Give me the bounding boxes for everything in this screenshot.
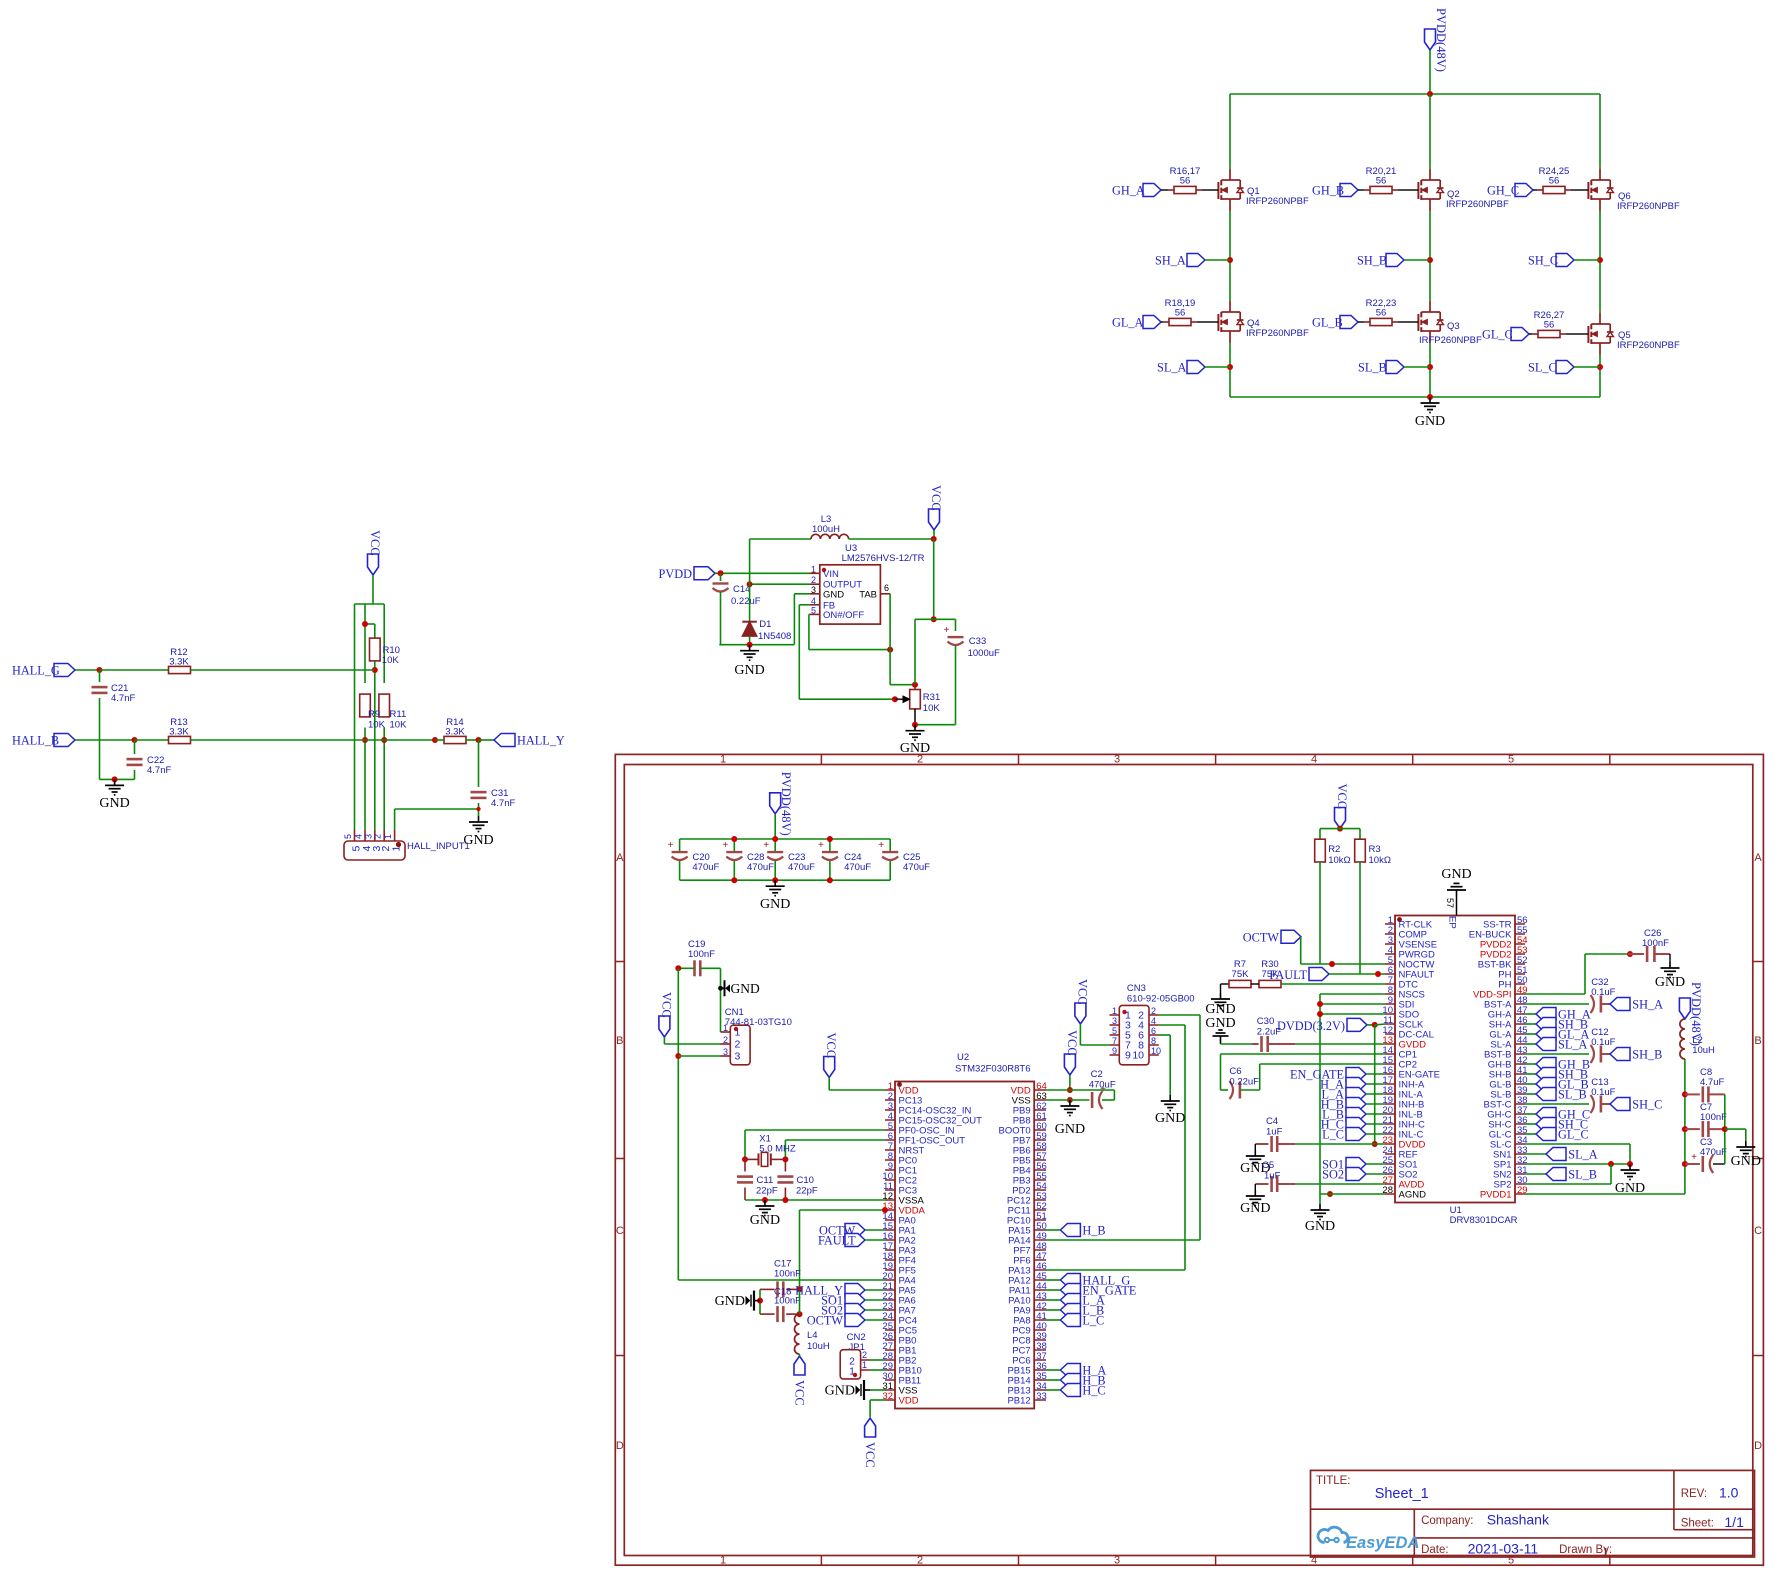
svg-text:STM32F030R8T6: STM32F030R8T6 (955, 1064, 1031, 1075)
svg-text:Date:: Date: (1421, 1544, 1449, 1556)
svg-text:0.1uF: 0.1uF (1591, 1087, 1615, 1098)
svg-text:10: 10 (1151, 1046, 1161, 1056)
svg-text:PVDD(48V): PVDD(48V) (779, 772, 793, 836)
svg-text:1/1: 1/1 (1724, 1514, 1744, 1530)
svg-text:GND: GND (1655, 975, 1685, 990)
svg-text:SH_A: SH_A (1632, 998, 1663, 1012)
svg-text:0.1uF: 0.1uF (1591, 1037, 1615, 1048)
svg-text:470uF: 470uF (1700, 1147, 1727, 1158)
svg-text:SH_C: SH_C (1632, 1098, 1662, 1112)
svg-text:33: 33 (1036, 1391, 1047, 1402)
svg-text:+: + (944, 625, 950, 636)
svg-text:4: 4 (354, 834, 364, 839)
svg-text:A: A (616, 852, 624, 864)
svg-text:+: + (763, 840, 769, 851)
svg-text:OCTW: OCTW (807, 1314, 844, 1328)
svg-text:1: 1 (720, 1554, 726, 1566)
svg-text:3: 3 (1114, 1554, 1120, 1566)
svg-text:+: + (722, 840, 728, 851)
svg-text:A: A (1754, 852, 1762, 864)
svg-text:56: 56 (1175, 308, 1186, 319)
svg-text:VCC: VCC (863, 1442, 877, 1468)
svg-text:GND: GND (99, 796, 129, 811)
svg-text:SH_C: SH_C (1528, 254, 1558, 268)
svg-text:VCC: VCC (824, 1033, 838, 1059)
svg-text:3: 3 (735, 1051, 741, 1063)
svg-text:4.7nF: 4.7nF (111, 693, 135, 704)
svg-text:22pF: 22pF (796, 1186, 818, 1197)
svg-text:470uF: 470uF (844, 862, 871, 873)
svg-text:D1: D1 (759, 619, 771, 630)
svg-text:3: 3 (1114, 754, 1120, 766)
svg-text:GND: GND (731, 981, 760, 996)
svg-text:C30: C30 (1257, 1016, 1274, 1027)
svg-text:SL_B: SL_B (1558, 1088, 1587, 1102)
svg-text:PVDD: PVDD (659, 567, 693, 581)
svg-text:IRFP260NPBF: IRFP260NPBF (1246, 196, 1309, 207)
svg-text:10K: 10K (368, 720, 386, 731)
svg-text:2: 2 (917, 1554, 923, 1566)
svg-text:DRV8301DCAR: DRV8301DCAR (1450, 1215, 1518, 1226)
svg-text:+: + (1691, 1152, 1697, 1163)
svg-text:+: + (878, 840, 884, 851)
svg-text:75K: 75K (1262, 969, 1280, 980)
svg-text:4: 4 (1151, 1016, 1156, 1026)
svg-text:H_B: H_B (1082, 1224, 1105, 1238)
svg-text:5.0 MHZ: 5.0 MHZ (759, 1144, 796, 1155)
svg-text:7: 7 (1112, 1036, 1117, 1046)
svg-text:VCC: VCC (929, 485, 943, 511)
svg-text:SL_B: SL_B (1568, 1168, 1597, 1182)
svg-text:56: 56 (1376, 308, 1387, 319)
svg-text:PVDD1: PVDD1 (1480, 1190, 1512, 1201)
svg-text:Sheet:: Sheet: (1681, 1518, 1714, 1530)
svg-text:Drawn By:: Drawn By: (1559, 1544, 1612, 1556)
svg-text:GL_A: GL_A (1112, 316, 1144, 330)
svg-text:56: 56 (1180, 176, 1191, 187)
svg-text:GH_A: GH_A (1112, 184, 1145, 198)
svg-text:D: D (1754, 1440, 1762, 1452)
svg-text:HALL_B: HALL_B (12, 734, 59, 748)
svg-text:6: 6 (1151, 1026, 1156, 1036)
svg-text:L_C: L_C (1322, 1128, 1344, 1142)
svg-text:1: 1 (811, 564, 816, 574)
svg-text:TITLE:: TITLE: (1316, 1475, 1351, 1487)
svg-text:GND: GND (1731, 1154, 1761, 1169)
svg-text:1N5408: 1N5408 (758, 631, 791, 642)
svg-text:SL_A: SL_A (1558, 1038, 1587, 1052)
svg-text:100nF: 100nF (1642, 938, 1669, 949)
svg-text:22pF: 22pF (756, 1186, 778, 1197)
svg-text:57: 57 (1445, 898, 1455, 908)
svg-text:H_C: H_C (1082, 1384, 1105, 1398)
svg-text:U2: U2 (957, 1052, 969, 1063)
svg-text:9: 9 (1125, 1050, 1131, 1062)
svg-text:GND: GND (825, 1384, 855, 1399)
svg-text:GND: GND (1205, 1002, 1235, 1017)
svg-text:4.7uF: 4.7uF (1700, 1077, 1724, 1088)
svg-text:5: 5 (1112, 1026, 1117, 1036)
svg-text:IRFP260NPBF: IRFP260NPBF (1446, 199, 1509, 210)
svg-text:470uF: 470uF (1089, 1080, 1116, 1091)
svg-text:3.3K: 3.3K (445, 727, 465, 738)
svg-text:VCC: VCC (368, 530, 382, 556)
svg-text:GND: GND (823, 589, 844, 600)
svg-text:GL_B: GL_B (1312, 316, 1343, 330)
svg-text:2: 2 (862, 1350, 867, 1360)
svg-text:IRFP260NPBF: IRFP260NPBF (1617, 201, 1680, 212)
svg-text:1: 1 (723, 1023, 728, 1033)
svg-text:5: 5 (343, 834, 353, 839)
svg-text:10uH: 10uH (1692, 1045, 1715, 1056)
svg-text:3.3K: 3.3K (169, 727, 189, 738)
svg-text:DVDD(3.2V): DVDD(3.2V) (1277, 1019, 1345, 1033)
svg-text:Shashank: Shashank (1487, 1512, 1550, 1528)
svg-text:GND: GND (1415, 414, 1445, 429)
svg-text:R31: R31 (923, 692, 940, 703)
svg-text:PVDD(48V): PVDD(48V) (1434, 8, 1448, 72)
svg-text:EP: EP (1447, 916, 1458, 929)
svg-text:AGND: AGND (1399, 1190, 1427, 1201)
svg-text:10K: 10K (390, 720, 408, 731)
svg-text:SH_B: SH_B (1357, 254, 1387, 268)
svg-text:IRFP260NPBF: IRFP260NPBF (1617, 340, 1680, 351)
svg-text:2: 2 (917, 754, 923, 766)
svg-text:C: C (1754, 1225, 1762, 1237)
svg-text:C6: C6 (1229, 1066, 1241, 1077)
svg-text:470uF: 470uF (692, 862, 719, 873)
svg-text:10kΩ: 10kΩ (1369, 855, 1391, 866)
svg-text:SL_B: SL_B (1358, 361, 1387, 375)
svg-text:56: 56 (1544, 320, 1555, 331)
svg-text:VCC: VCC (793, 1380, 807, 1406)
svg-text:TAB: TAB (859, 589, 877, 600)
svg-text:GND: GND (1205, 1016, 1235, 1031)
svg-text:GH_B: GH_B (1312, 184, 1344, 198)
svg-text:VDD: VDD (899, 1396, 919, 1407)
svg-text:0.22uF: 0.22uF (731, 596, 761, 607)
svg-text:610-92-05GB00: 610-92-05GB00 (1127, 994, 1195, 1005)
svg-text:470uF: 470uF (788, 862, 815, 873)
svg-text:2: 2 (811, 575, 816, 585)
svg-text:VCC: VCC (659, 992, 673, 1018)
svg-text:GND: GND (760, 897, 790, 912)
svg-text:2: 2 (735, 1039, 741, 1051)
svg-text:L4: L4 (807, 1330, 818, 1341)
svg-text:C5: C5 (1262, 1160, 1274, 1171)
svg-text:VCC: VCC (1065, 1030, 1079, 1056)
svg-text:6: 6 (884, 583, 889, 593)
svg-text:IRFP260NPBF: IRFP260NPBF (1419, 335, 1482, 346)
svg-text:SH_B: SH_B (1632, 1048, 1662, 1062)
svg-text:D: D (616, 1440, 624, 1452)
svg-text:0.1uF: 0.1uF (1591, 987, 1615, 998)
svg-text:L_C: L_C (1082, 1314, 1104, 1328)
svg-text:C10: C10 (797, 1175, 814, 1186)
svg-text:GND: GND (1155, 1111, 1185, 1126)
svg-text:2021-03-11: 2021-03-11 (1468, 1541, 1539, 1557)
svg-text:SO2: SO2 (1322, 1168, 1344, 1182)
svg-text:3.3K: 3.3K (169, 657, 189, 668)
svg-text:HALL_G: HALL_G (12, 664, 60, 678)
svg-text:+: + (668, 840, 674, 851)
svg-text:Sheet_1: Sheet_1 (1375, 1486, 1429, 1502)
svg-text:SH_A: SH_A (1155, 254, 1186, 268)
svg-text:0.22uF: 0.22uF (1229, 1077, 1259, 1088)
svg-text:GND: GND (1305, 1219, 1335, 1234)
svg-text:Company:: Company: (1421, 1515, 1473, 1527)
svg-text:GH_C: GH_C (1487, 184, 1519, 198)
svg-text:+: + (818, 840, 824, 851)
svg-text:GND: GND (715, 1294, 745, 1309)
svg-text:R9: R9 (368, 709, 380, 720)
svg-text:1uF: 1uF (1264, 1171, 1281, 1182)
svg-text:IRFP260NPBF: IRFP260NPBF (1246, 328, 1309, 339)
svg-text:GL_C: GL_C (1558, 1128, 1589, 1142)
svg-text:100nF: 100nF (688, 949, 715, 960)
svg-text:10K: 10K (382, 655, 400, 666)
svg-text:HALL_INPUT1: HALL_INPUT1 (407, 841, 470, 852)
svg-text:GND: GND (1441, 867, 1471, 882)
svg-text:C4: C4 (1266, 1116, 1278, 1127)
svg-text:3: 3 (1112, 1016, 1117, 1026)
svg-text:REV:: REV: (1681, 1488, 1707, 1500)
svg-text:2.2uF: 2.2uF (1257, 1027, 1281, 1038)
svg-text:C33: C33 (969, 636, 986, 647)
svg-text:100uH: 100uH (812, 524, 840, 535)
svg-text:56: 56 (1549, 176, 1560, 187)
svg-text:1: 1 (383, 834, 393, 839)
svg-text:4: 4 (811, 596, 816, 606)
svg-text:PB12: PB12 (1007, 1396, 1030, 1407)
svg-text:9: 9 (1112, 1046, 1117, 1056)
svg-text:1: 1 (720, 754, 726, 766)
svg-text:HALL_Y: HALL_Y (517, 734, 565, 748)
svg-text:OCTW: OCTW (1243, 931, 1280, 945)
svg-text:1.0: 1.0 (1719, 1485, 1739, 1501)
svg-text:100nF: 100nF (774, 1269, 801, 1280)
svg-text:4.7nF: 4.7nF (491, 798, 515, 809)
svg-text:4.7nF: 4.7nF (147, 765, 171, 776)
svg-text:SL_C: SL_C (1528, 361, 1557, 375)
svg-text:VIN: VIN (823, 569, 839, 580)
svg-text:4: 4 (1311, 754, 1317, 766)
svg-text:1: 1 (862, 1360, 867, 1370)
svg-text:Q3: Q3 (1447, 321, 1460, 332)
svg-text:GND: GND (1240, 1201, 1270, 1216)
svg-text:75K: 75K (1232, 969, 1250, 980)
svg-text:R2: R2 (1328, 844, 1340, 855)
svg-text:1000uF: 1000uF (968, 648, 1000, 659)
svg-text:GND: GND (750, 1213, 780, 1228)
svg-text:VCC: VCC (1075, 979, 1089, 1005)
svg-text:3: 3 (723, 1047, 728, 1057)
svg-text:CN3: CN3 (1127, 983, 1146, 994)
svg-text:SL_A: SL_A (1157, 361, 1186, 375)
svg-text:1: 1 (391, 846, 403, 852)
svg-text:1: 1 (1112, 1006, 1117, 1016)
svg-text:5: 5 (1508, 754, 1514, 766)
svg-text:56: 56 (1376, 176, 1387, 187)
svg-text:1uF: 1uF (1266, 1127, 1283, 1138)
svg-text:R3: R3 (1369, 844, 1381, 855)
svg-text:SL_A: SL_A (1568, 1148, 1597, 1162)
svg-text:LM2576HVS-12/TR: LM2576HVS-12/TR (842, 553, 925, 564)
svg-text:470uF: 470uF (747, 862, 774, 873)
svg-text:3: 3 (811, 585, 816, 595)
svg-text:2: 2 (1151, 1006, 1156, 1016)
svg-text:C11: C11 (757, 1175, 774, 1186)
svg-text:10K: 10K (923, 703, 941, 714)
svg-text:B: B (1754, 1035, 1761, 1047)
svg-text:10: 10 (1132, 1050, 1144, 1062)
svg-text:GND: GND (1055, 1122, 1085, 1137)
svg-text:EasyEDA: EasyEDA (1346, 1534, 1419, 1552)
svg-text:C: C (616, 1225, 624, 1237)
svg-text:C2: C2 (1091, 1069, 1103, 1080)
svg-text:5: 5 (811, 605, 816, 615)
svg-text:2: 2 (723, 1035, 728, 1045)
svg-text:GL_C: GL_C (1482, 328, 1513, 342)
svg-text:100nF: 100nF (1700, 1112, 1727, 1123)
svg-text:VCC: VCC (1335, 784, 1349, 810)
svg-text:GND: GND (734, 663, 764, 678)
svg-text:2: 2 (373, 834, 383, 839)
svg-text:470uF: 470uF (903, 862, 930, 873)
svg-text:FAULT: FAULT (818, 1234, 856, 1248)
svg-text:8: 8 (1151, 1036, 1156, 1046)
svg-text:ON#/OFF: ON#/OFF (823, 610, 864, 621)
svg-text:B: B (616, 1035, 623, 1047)
svg-text:R11: R11 (390, 709, 407, 720)
svg-text:10kΩ: 10kΩ (1328, 855, 1350, 866)
svg-text:10uH: 10uH (807, 1341, 830, 1352)
